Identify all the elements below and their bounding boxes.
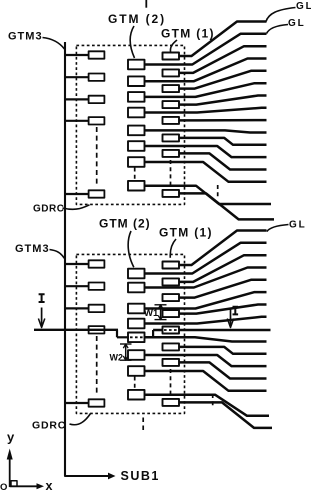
ellipsis dashed line GTM3 column block 1 [96,127,98,187]
terminal pad GTM(1) row 4 block 1 [163,101,180,108]
wire gate line GL from GTM(1) pad row 6 block 2 [179,347,267,354]
wire connector to GTM3 pad row 4 block 1 [65,120,89,122]
leader GTM3 block 2 [50,250,65,259]
svg-text:SUB1: SUB1 [121,469,160,483]
wire gate line GL from GTM(1) pad row 1 block 1 [179,22,267,57]
terminal pad GTM(1) row 3 block 1 [163,85,180,92]
terminal pad GTM(1) row 3 block 2 [163,294,180,301]
terminal pad GTM(2) row 3 block 2 [128,304,145,314]
ellipsis dashed line GTM3 column block 2 [96,336,98,396]
terminal pad GTM(2) row 4 block 1 [128,108,145,118]
terminal pad GTM(1) row 2 block 1 [163,69,180,76]
svg-text:W2: W2 [110,352,124,362]
leader GL top 1 [266,8,296,22]
ellipsis dashed connector GTM(1) column block 2 [170,369,172,397]
terminal pad GTM3 row 5 block 1 [89,190,105,197]
svg-text:GL: GL [296,1,311,12]
label I left (drawn serif glyph) [39,294,45,302]
leader GTM(1) block 2 [170,239,176,258]
wire gate line GL from GTM(1) pad row 3 block 1 [179,71,267,89]
wire gate line GL from GTM(2) pad row 7 block 1 [145,162,267,182]
wire connector to GTM3 pad row 3 block 1 [65,98,89,100]
wire connector to GTM3 pad row 1 block 2 [65,263,89,265]
SUB1 arrowhead [108,473,116,480]
section line I-I / gate line from GTM(1) section pad block 2 [153,329,270,332]
wire gate line GL from GTM(2) pad row 4 block 1 [145,108,267,113]
y axis arrow [9,458,11,487]
wire gate line GL from GTM(1) pad row 7 block 1 [179,153,267,169]
wire gate line GL from GTM(2) pad row 6 block 1 [145,146,267,157]
wire gate line GL from GTM(2) pad row 2 block 1 [145,59,267,82]
terminal pad GTM(2) row 5 block 2 [128,333,145,343]
svg-text:GL: GL [289,220,307,231]
svg-text:GL: GL [288,18,306,29]
wire gate line GL from GTM(2) pad row 1 block 2 [145,243,267,274]
wire connector to GTM3 pad row 2 block 1 [65,76,89,78]
svg-text:GDRC: GDRC [32,420,66,432]
wire gate line GL from GTM(1) pad row 4 block 2 [179,305,267,314]
leader GDRC block 1 [63,205,90,210]
dimension arrow W1 [160,305,162,320]
terminal pad GTM(2) row 7 block 2 [128,366,145,376]
terminal pad GTM(2) row 6 block 2 [128,350,145,360]
terminal pad GTM(2) row 2 block 2 [128,283,145,293]
terminal pad GTM(1) row 4 block 2 [163,310,180,317]
svg-text:W1: W1 [144,308,159,319]
terminal pad GTM(1) row 1 block 2 [163,262,180,269]
terminal pad GTM3 row 5 block 2 [89,399,105,406]
svg-text:GTM (1): GTM (1) [159,226,213,240]
wire gate line GL from GTM(2) pad row 7 block 2 [145,371,267,391]
ellipsis dashed connector GTM(2) column block 1 [134,168,136,181]
terminal pad GTM3 row 2 block 2 [89,283,105,290]
wire connector to GTM3 pad row 5 block 2 [65,402,89,404]
wire gate line GL from GTM(2) pad row 6 block 2 [145,355,267,366]
terminal pad GTM(1) row 1 block 1 [163,53,180,60]
wire gate line GL from GTM(2) pad row 4 block 2 [145,317,267,324]
leader GL top 2 [267,25,289,34]
svg-text:GTM3: GTM3 [15,243,50,255]
terminal pad GTM3 row 4 block 2 (crossed by section line I-I) [89,326,105,333]
ellipsis dashed connector GTM(1) column block 1 [170,160,172,188]
terminal pad GTM(2) row 7 block 1 [128,157,145,167]
wire gate line GL from GTM(2) pad row 3 block 2 [145,292,267,308]
terminal pad GTM3 row 2 block 1 [89,74,105,81]
wire gate line GL from GTM(2) pad row 5 block 1 [145,130,267,132]
leader GTM(1) block 1 [170,40,177,52]
wire gate line GL from GTM(1) pad row 7 block 2 [179,362,267,378]
terminal pad GTM(1) row 8 block 1 [163,190,180,197]
svg-text:GTM (2): GTM (2) [99,217,151,231]
terminal pad GTM3 row 3 block 2 [89,305,105,312]
terminal pad GTM(2) row 8 block 1 [128,181,145,191]
wire gate line GL from GTM(2) pad row 5 block 2 [145,337,267,341]
wire gate line GL from GTM(1) pad row 8 block 1 [179,193,274,219]
section line I-I jog down [116,330,118,338]
wire gate line GL from GTM(1) pad row 2 block 1 [179,46,267,73]
wire gate line GL from GTM(2) pad row 2 block 2 [145,268,267,288]
wire connector to GTM3 pad row 1 block 1 [65,54,89,56]
ellipsis dashed mark in gate-line fan block 2 [212,394,214,406]
dashed region border GDRC block 1 [76,45,184,204]
terminal pad GTM(2) row 3 block 1 [128,92,145,102]
terminal pad GTM(1) row 6 block 2 [163,343,180,350]
svg-text:GTM3: GTM3 [8,31,43,43]
top center tick mark [145,0,147,8]
section line I-I dashed inside GTM(1) pad [164,329,178,331]
svg-text:y: y [7,430,15,445]
terminal pad GTM(2) row 8 block 2 [128,390,145,400]
svg-text:GDRC: GDRC [33,204,64,215]
wire gate line GL from GTM(1) pad row 4 block 1 [179,96,267,105]
terminal pad GTM3 row 3 block 1 [89,96,105,103]
svg-text:GTM (2): GTM (2) [108,12,166,26]
wire gate line GL from GTM(1) pad row 6 block 1 [179,138,267,145]
section line I-I left segment through GTM3 pad [34,329,118,331]
dimension arrow W2 [125,344,127,360]
terminal pad GTM3 row 4 block 1 [89,117,105,124]
svg-text:O: O [0,482,7,492]
leader GTM(2) block 2 [128,231,134,267]
terminal pad GTM(1) row 2 block 2 [163,278,180,285]
leader GDRC block 2 [70,414,91,425]
section arrow I right [230,309,232,327]
terminal pad GTM(2) row 1 block 2 [128,269,145,279]
section line I-I into GTM(2) pad [117,336,129,338]
terminal pad GTM3 row 1 block 2 [89,260,105,267]
origin right-angle mark [11,481,17,487]
terminal pad GTM3 row 1 block 1 [89,51,105,58]
substrate edge line SUB1 (vertical bus) [65,42,108,476]
ellipsis dashed mark in gate-line fan block 1 [217,185,219,198]
wire connector to GTM3 pad row 2 block 2 [65,285,89,287]
terminal pad GTM(1) row 5 block 2 [163,327,180,334]
leader GL block 2 [267,225,289,232]
terminal pad GTM(2) row 4 block 2 [128,319,145,329]
section line I-I dashed inside GTM(2) pad [130,336,144,338]
wire connector to GTM3 pad row 3 block 2 [65,307,89,309]
wire connector to GTM3 pad row 5 block 1 [65,193,89,195]
leader GTM3 block 1 [43,38,65,50]
wire gate line GL from GTM(2) pad row 1 block 1 [145,34,267,65]
section arrow I left [41,308,43,327]
terminal pad GTM(2) row 6 block 1 [128,141,145,151]
wire gate line GL from GTM(2) pad row 8 block 1 [143,186,271,204]
x axis arrow [10,485,38,487]
terminal pad GTM(1) row 7 block 2 [163,359,180,366]
terminal pad GTM(1) row 8 block 2 [163,399,180,406]
ellipsis dashed mark below block 2 border [142,418,144,434]
terminal pad GTM(1) row 7 block 1 [163,150,180,157]
svg-text:x: x [46,479,53,492]
svg-text:GTM (1): GTM (1) [161,27,215,41]
terminal pad GTM(2) row 2 block 1 [128,76,145,86]
wire gate line GL from GTM(1) pad row 5 block 1 [179,119,267,122]
wire gate line GL from GTM(1) pad row 2 block 2 [179,255,267,282]
wire gate line GL from GTM(1) pad row 8 block 2 [179,402,272,428]
dashed region border GDRC block 2 [76,254,184,413]
wire gate line GL from GTM(2) pad row 3 block 1 [145,83,267,97]
terminal pad GTM(2) row 5 block 1 [128,126,145,136]
label I right (drawn serif glyph) [233,307,239,315]
leader GTM(2) block 1 [130,26,134,58]
terminal pad GTM(2) row 1 block 1 [128,60,145,70]
wire gate line GL from GTM(2) pad row 8 block 2 [143,395,269,416]
terminal pad GTM(1) row 6 block 1 [163,134,180,141]
wire gate line GL from GTM(1) pad row 1 block 2 [179,231,267,266]
ellipsis dashed connector GTM(2) column block 2 [134,377,136,390]
wire gate line GL from GTM(1) pad row 3 block 2 [179,280,267,298]
section line I-I jog up connector [152,330,154,338]
terminal pad GTM(1) row 5 block 1 [163,117,180,124]
